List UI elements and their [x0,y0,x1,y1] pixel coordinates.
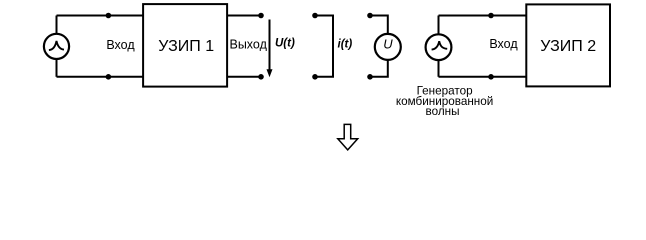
wire UZIP1 output bottom [227,76,261,78]
svg-text:Вход: Вход [106,38,135,52]
node dot UZIP1 output top [258,13,264,19]
svg-text:Вход: Вход [489,37,518,51]
wire vertical G1 top lead [56,16,58,35]
node dot UZIP1 input top [106,13,112,19]
node dot current loop top [312,13,318,19]
svg-text:U: U [383,37,393,52]
current loop i(t) bracket [315,16,333,77]
svg-text:УЗИП 2: УЗИП 2 [540,38,596,55]
node dot voltmeter bottom [367,74,373,80]
node dot UZIP2 input top [488,13,494,19]
svg-text:i(t): i(t) [338,39,353,51]
wire vertical G2 top lead [438,16,440,35]
box UZIP2 [526,4,610,86]
block arrow down (outline) [338,124,358,149]
impulse generator G1 circle [44,34,69,59]
node dot UZIP2 input bottom [488,74,494,80]
wire top from G2 to UZIP2 input [439,15,527,17]
wire bottom-left from generator G1 to UZIP1 input [57,76,144,78]
svg-text:волны: волны [426,105,460,118]
box UZIP1 [143,4,227,87]
svg-text:U(t): U(t) [275,38,295,50]
node dot UZIP1 output bottom [258,74,264,80]
wire vertical G1 bottom lead [56,59,58,77]
impulse waveform symbol inside G1 [49,41,64,50]
svg-text:УЗИП 1: УЗИП 1 [158,38,214,55]
voltmeter top lead [370,16,388,35]
wire vertical G2 bottom lead [438,60,440,77]
wire UZIP1 output top [227,15,261,17]
wire bottom from G2 to UZIP2 input [439,76,527,78]
arrow U(t) shaft [269,20,271,73]
node dot current loop bottom [312,74,318,80]
impulse waveform symbol inside G2 [432,41,448,49]
node dot voltmeter top [367,13,373,19]
voltmeter U circle [375,34,401,60]
svg-text:Выход: Выход [229,38,267,52]
wire top-left from generator G1 to UZIP1 input [57,15,144,17]
node dot UZIP1 input bottom [106,74,112,80]
impulse generator G2 circle [426,34,452,60]
arrowhead of U(t) arrow [267,69,273,77]
voltmeter bottom lead [370,60,388,77]
